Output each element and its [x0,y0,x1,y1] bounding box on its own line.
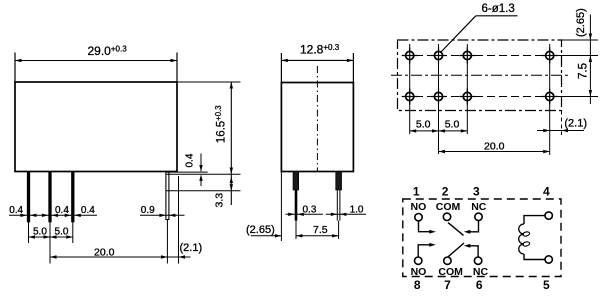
extension line body right edge [178,176,180,264]
svg-text:0.3: 0.3 [303,204,317,215]
coil pin (hollow, side view) [166,172,169,221]
extension line pin B [49,221,51,264]
svg-text:3: 3 [473,184,480,198]
extension line right pin [338,221,340,239]
reference line A2 [166,173,241,175]
relay body (side view) [15,82,177,172]
coil wiring [524,216,545,260]
reference line A (0.4 standoff) [166,171,208,173]
dimension (2.1) [157,242,202,259]
svg-text:5.0: 5.0 [55,227,69,238]
NO contact arm (bottom) [418,243,436,257]
center line [316,66,318,171]
svg-text:NC: NC [471,201,487,213]
svg-text:NC: NC [473,266,489,278]
svg-text:(2.65): (2.65) [246,224,275,236]
COM moving arm (bottom) [448,243,464,257]
reference line B (3.3 seating) [166,190,241,192]
extension line pin A [28,221,30,243]
hole column line 2 [438,44,440,154]
dimension 12.8+0.3 body depth [281,43,353,83]
coil terminal circle pin 5 [545,256,552,263]
dimension 1.0 coil pin width [326,204,366,216]
svg-text:5.0: 5.0 [445,119,460,131]
svg-text:NO: NO [411,266,427,278]
extension lines right [554,40,598,97]
hole column line 3 [466,44,468,134]
svg-text:(2.1): (2.1) [180,242,203,254]
mounting hole 7 [459,89,475,105]
dimension 0.4 standoff [185,153,203,186]
dimension 20.0 PCB [439,140,550,153]
extension line PCB right edge [561,111,563,136]
mounting hole 1 [402,48,418,64]
svg-text:3.3: 3.3 [214,193,226,208]
dimension 5.0 / 5.0 PCB [410,119,468,133]
coil L1 [519,224,530,254]
mounting hole 8 [542,89,558,105]
svg-text:0.4: 0.4 [185,153,196,167]
extension line left pin [295,221,297,239]
dimension (2.1) PCB [537,117,587,132]
PCB outline (dash-dot) [398,40,562,111]
svg-text:20.0: 20.0 [484,140,505,152]
svg-text:7.5: 7.5 [577,63,589,79]
contact circle pin 1 [415,214,422,221]
mounting hole 3 [459,48,475,64]
svg-text:(2.1): (2.1) [564,117,587,129]
dimension 20.0 [50,246,168,258]
contact circle pin 8 [415,257,422,264]
svg-text:8: 8 [414,278,421,292]
dimension (2.65) top right [575,8,592,104]
svg-text:5.0: 5.0 [33,227,47,238]
extension line body left edge [280,172,282,242]
contact pin B (side view) [48,172,51,223]
hole column line 4 [549,44,551,155]
svg-text:20.0: 20.0 [94,246,115,258]
relay body (front view) [281,83,353,172]
mounting hole 2 [431,48,447,64]
contact circle pin 2 [443,213,450,220]
mounting hole 5 [402,89,418,105]
svg-text:5.0: 5.0 [416,119,431,131]
svg-text:(2.65): (2.65) [575,8,587,37]
dimension 0.4 pin thicknesses [9,205,97,217]
svg-text:1: 1 [413,184,420,198]
svg-text:0.4: 0.4 [55,205,69,216]
svg-text:NO: NO [411,201,427,213]
hole row line (lower) [403,96,556,98]
NC contact arm (top) [464,220,479,233]
mounting hole 4 [542,48,558,64]
contact pin (front view, 0.3 edge) [293,172,299,221]
svg-text:0.9: 0.9 [141,205,155,216]
svg-text:7: 7 [444,278,451,292]
svg-text:0.4: 0.4 [81,205,95,216]
dimension 0.3 pin thickness [286,204,323,216]
svg-text:2: 2 [442,184,449,198]
svg-text:4: 4 [543,184,550,198]
coil terminal circle pin 4 [545,212,552,219]
dimension 29.0+0.3 (body width) [15,44,177,82]
svg-text:COM: COM [436,201,461,213]
svg-text:6: 6 [476,278,483,292]
label 6-&#248;1.3 with leader [441,3,518,53]
svg-text:0.4: 0.4 [9,205,23,216]
contact pin A (side view) [27,172,30,223]
dimension 3.3 pin shoulder [214,177,234,208]
hole row line (upper) [403,55,556,57]
dimension 7.5 right [577,63,592,97]
svg-text:6-ø1.3: 6-ø1.3 [482,3,515,15]
extension line pin C [72,221,74,243]
svg-text:1.0: 1.0 [350,204,364,215]
NO contact arm (top) [419,221,436,234]
dimension 16.5+0.3 body height [178,82,241,205]
svg-text:5: 5 [543,278,550,292]
dimension 7.5 pin spacing [296,224,339,237]
contact circle pin 3 [475,213,482,220]
dimension 0.9 coil pin width [140,205,185,217]
NC contact arm (bottom) [464,244,478,258]
hole column line 1 [409,44,411,134]
COM moving arm (top) [448,223,464,236]
contact circle pin 7 [444,257,451,264]
svg-text:7.5: 7.5 [313,224,328,236]
mounting hole 6 [431,89,447,105]
dimension (2.65) [246,224,281,238]
contact pin C (side view) [71,172,74,223]
svg-text:COM: COM [438,266,463,278]
coil pin (front view, 1.0 face) [336,172,342,221]
dimension 5.0 / 5.0 pin pitch [29,227,73,239]
horizontal center line [391,74,568,76]
extension line coil pin [166,220,168,264]
schematic border (dashed) [403,199,561,277]
contact circle pin 6 [474,257,481,264]
